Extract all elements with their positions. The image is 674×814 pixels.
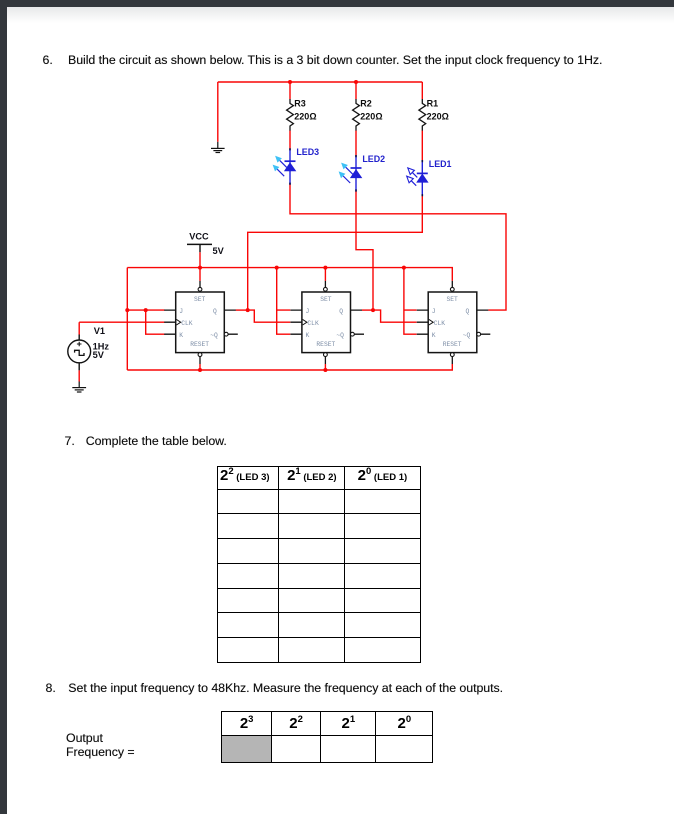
- item 8 text: [68, 681, 503, 695]
- resistor R3: [287, 99, 294, 131]
- JK flip-flop U2: [290, 281, 364, 364]
- page top shadow gradient: [7, 7, 674, 23]
- wire LED2 cathode to U2 Q node: [356, 191, 373, 310]
- item 6 number: [43, 53, 53, 67]
- wire V1 negative to ground: [78, 370, 80, 381]
- item 6 text: [68, 53, 602, 67]
- ground (V1): [72, 382, 86, 393]
- wire V1 to U1 CLK: [79, 322, 164, 334]
- wire R3 top lead: [289, 82, 291, 99]
- JK flip-flop U3: [417, 281, 491, 364]
- R2 value labels: [360, 99, 382, 122]
- item 7 text: [86, 434, 227, 448]
- resistor R2: [353, 99, 360, 131]
- wire LED3 cathode to U3 Q: [290, 185, 506, 311]
- R1 value labels: [427, 99, 449, 122]
- svg-text:~Q: ~Q: [336, 332, 344, 339]
- item 7 number: [65, 434, 75, 448]
- svg-text:K: K: [306, 332, 310, 339]
- LED1 emission arrows (outline): [407, 168, 418, 186]
- svg-text:5V: 5V: [93, 350, 105, 360]
- svg-text:R2: R2: [360, 99, 372, 109]
- svg-text:VCC: VCC: [189, 232, 209, 242]
- junction U2 Q node: [371, 308, 375, 312]
- wire VCC symbol to rail and U1 SET: [199, 252, 201, 281]
- svg-text:RESET: RESET: [316, 341, 335, 348]
- LED3 emission arrows: [273, 156, 287, 176]
- svg-text:Q: Q: [466, 308, 470, 315]
- wire U1 Q node to U2 CLK: [248, 310, 291, 322]
- svg-text:J: J: [306, 308, 310, 315]
- svg-text:Q: Q: [339, 308, 343, 315]
- wire VCC distribution rail: [127, 268, 452, 281]
- wire top VCC rail: [218, 81, 422, 83]
- table for item 7: [217, 466, 421, 663]
- wire R1 bottom to LED1: [421, 131, 423, 161]
- svg-text:RESET: RESET: [190, 341, 209, 348]
- svg-text:LED2: LED2: [362, 154, 385, 164]
- wire U2 Q node to U3 CLK: [373, 310, 417, 322]
- svg-text:J: J: [432, 308, 436, 315]
- wire left vertical rail: [126, 268, 128, 370]
- svg-text:220Ω: 220Ω: [294, 111, 316, 121]
- svg-text:R1: R1: [427, 99, 439, 109]
- svg-text:CLK: CLK: [307, 320, 319, 327]
- wire U1 K feed: [146, 310, 165, 334]
- wire LED1 cathode to U1 Q node: [248, 196, 423, 310]
- wire rail to U2 SET: [324, 268, 326, 281]
- junction VCC rail at U2 SET: [323, 266, 327, 270]
- wire U2 RESET drop: [324, 364, 326, 370]
- table for item 8: [221, 711, 433, 764]
- V1 labels: [93, 326, 110, 360]
- wire bottom RESET rail: [127, 364, 452, 370]
- wire R3 bottom to LED3: [289, 131, 291, 149]
- junction bottom rail at U1 RESET: [198, 368, 202, 372]
- wire U1 Q stub to node: [236, 309, 248, 311]
- wire U1 J feed: [127, 309, 164, 311]
- svg-text:LED3: LED3: [296, 147, 319, 157]
- wire R1 top lead: [421, 82, 423, 99]
- junction bottom rail at U2 RESET: [323, 368, 327, 372]
- svg-text:R3: R3: [294, 99, 306, 109]
- item 8 number: [46, 681, 56, 695]
- svg-text:RESET: RESET: [443, 341, 462, 348]
- wire U1 RESET drop: [199, 364, 201, 370]
- svg-text:SET: SET: [447, 296, 459, 303]
- LED1 label: [429, 159, 452, 169]
- LED2 emission arrows: [339, 163, 353, 183]
- svg-text:5V: 5V: [213, 246, 225, 256]
- junction top rail at R2: [354, 80, 358, 84]
- svg-text:220Ω: 220Ω: [360, 111, 382, 121]
- wire R2 bottom to LED2: [355, 131, 357, 156]
- JK flip-flop U1: [164, 281, 238, 364]
- junction top rail at R3: [288, 80, 292, 84]
- top window chrome bar: [0, 0, 674, 7]
- svg-text:K: K: [179, 332, 183, 339]
- svg-text:J: J: [179, 308, 183, 315]
- LED3 diode: [284, 148, 296, 185]
- junction VCC rail at U2 J/K: [275, 266, 279, 270]
- svg-text:CLK: CLK: [181, 320, 193, 327]
- LED1 diode: [416, 160, 428, 196]
- LED2 diode: [350, 155, 362, 192]
- R3 value labels: [294, 99, 316, 122]
- wire U2 Q stub to node: [362, 309, 373, 311]
- junction U1 Q node: [246, 308, 250, 312]
- junction VCC rail at U3 J/K: [402, 266, 406, 270]
- wire drop from top rail to ground: [217, 82, 219, 142]
- ground (top rail): [211, 142, 225, 153]
- junction VCC rail at U1 SET: [198, 266, 202, 270]
- VCC symbol: [187, 232, 225, 256]
- LED3 label: [296, 147, 319, 157]
- junction U1 J/K tee: [144, 308, 148, 312]
- svg-text:~Q: ~Q: [210, 332, 218, 339]
- svg-text:220Ω: 220Ω: [427, 111, 449, 121]
- svg-text:SET: SET: [320, 296, 332, 303]
- wire R2 top lead: [355, 82, 357, 99]
- voltage source V1 clock: [68, 335, 91, 371]
- svg-text:LED1: LED1: [429, 159, 452, 169]
- LED2 label: [362, 154, 385, 164]
- svg-text:Q: Q: [213, 308, 217, 315]
- svg-text:V1: V1: [94, 326, 105, 336]
- wire U2 J/K feed: [277, 268, 291, 335]
- svg-text:CLK: CLK: [434, 320, 446, 327]
- junction left rail at U1 J: [125, 308, 129, 312]
- wire U3 J/K feed: [404, 268, 417, 335]
- resistor R1: [419, 99, 426, 131]
- svg-text:SET: SET: [194, 296, 206, 303]
- svg-text:~Q: ~Q: [463, 332, 471, 339]
- svg-text:K: K: [432, 332, 436, 339]
- output frequency label: [66, 731, 103, 745]
- left window chrome bar: [0, 0, 7, 814]
